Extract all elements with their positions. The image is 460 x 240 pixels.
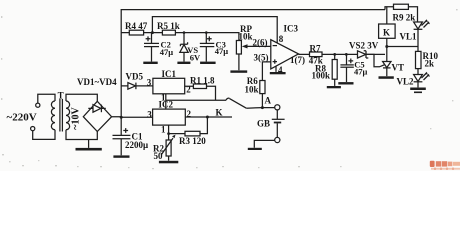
svg-text:VL2: VL2 xyxy=(397,77,415,87)
svg-text:IC2: IC2 xyxy=(159,100,174,110)
svg-text:6V: 6V xyxy=(190,53,201,63)
svg-text:K: K xyxy=(216,108,223,118)
svg-text:R1 1.8: R1 1.8 xyxy=(190,76,215,86)
svg-text:R5 1k: R5 1k xyxy=(157,21,180,31)
svg-text:GB: GB xyxy=(257,119,270,129)
svg-text:~10V: ~10V xyxy=(70,107,81,130)
svg-text:47μ: 47μ xyxy=(160,47,174,57)
svg-text:1: 1 xyxy=(161,124,166,134)
svg-text:2k: 2k xyxy=(425,59,435,69)
svg-text:R9 2k: R9 2k xyxy=(393,13,416,23)
svg-text:IC1: IC1 xyxy=(162,69,177,79)
svg-text:VD1~VD4: VD1~VD4 xyxy=(77,77,117,87)
svg-text:R7: R7 xyxy=(310,43,321,53)
svg-text:VS2 3V: VS2 3V xyxy=(349,41,379,51)
svg-text:50: 50 xyxy=(154,151,164,161)
svg-text:VL1: VL1 xyxy=(400,32,418,42)
svg-text:2(6): 2(6) xyxy=(253,37,268,47)
svg-text:47μ: 47μ xyxy=(354,66,368,76)
svg-text:~220V: ~220V xyxy=(7,112,37,124)
svg-text:10k: 10k xyxy=(239,32,253,42)
svg-text:1(7): 1(7) xyxy=(290,55,305,65)
svg-text:100k: 100k xyxy=(312,71,331,81)
svg-text:T: T xyxy=(58,90,64,100)
svg-text:10k: 10k xyxy=(245,84,259,94)
svg-text:A: A xyxy=(265,95,272,105)
svg-text:8: 8 xyxy=(279,34,284,44)
svg-text:3(5): 3(5) xyxy=(254,53,269,63)
svg-text:47μ: 47μ xyxy=(215,46,229,56)
svg-text:2200μ: 2200μ xyxy=(125,140,148,150)
svg-text:K: K xyxy=(383,27,390,37)
svg-text:R4 47: R4 47 xyxy=(125,21,148,31)
svg-text:3: 3 xyxy=(147,78,152,88)
svg-text:IC3: IC3 xyxy=(284,24,299,34)
svg-text:VD5: VD5 xyxy=(126,72,144,82)
svg-text:VT: VT xyxy=(392,63,405,73)
svg-text:R3 120: R3 120 xyxy=(179,136,206,146)
